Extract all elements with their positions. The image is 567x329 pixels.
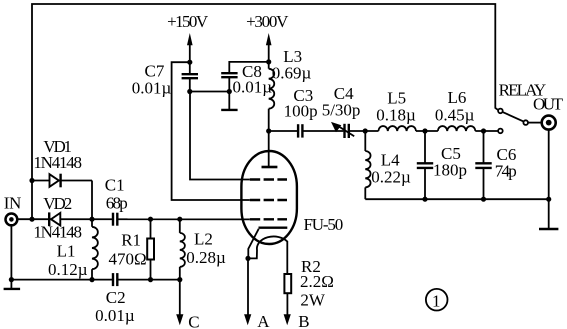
node: R1 top [148, 217, 153, 222]
node: lower rail at R1 [148, 277, 153, 282]
capacitor C5 [417, 131, 433, 199]
tube screen grid g2 (dashed) [250, 199, 287, 201]
relay common contact [523, 120, 528, 125]
arrow to C [176, 314, 183, 325]
diode VD1 [50, 174, 61, 188]
diode VD2 [49, 212, 60, 226]
connector IN [5, 214, 17, 226]
node: lower rail at L1 [89, 277, 94, 282]
svg-text:1N4148: 1N4148 [33, 223, 82, 242]
tube anode plate [262, 166, 278, 169]
inductor L3 [269, 62, 275, 131]
svg-text:C2: C2 [106, 288, 126, 307]
resistor R2 [284, 274, 291, 315]
svg-text:470Ω: 470Ω [109, 249, 147, 268]
wire: VD1 right vertical to main line [91, 181, 93, 220]
svg-text:1N4148: 1N4148 [33, 153, 82, 172]
power +150V arrow [187, 33, 193, 62]
svg-text:5/30p: 5/30p [322, 100, 361, 119]
ground (input) [4, 288, 21, 290]
tube control grid g1 (dashed) [250, 218, 287, 220]
svg-text:IN: IN [4, 193, 22, 212]
wire: common to OUT [528, 122, 541, 124]
node: output ground junction [546, 197, 551, 202]
wire: lower-left ground rail [11, 279, 179, 281]
wire: feedback vertical down to input node [31, 181, 33, 220]
node: L4 top [363, 128, 368, 133]
inductor L4 [365, 131, 370, 199]
svg-text:74p: 74p [495, 161, 517, 180]
svg-text:180p: 180p [433, 161, 467, 180]
relay switch blade [502, 112, 523, 122]
inductor L1 [92, 219, 98, 279]
capacitor C3 [297, 124, 304, 139]
node: C6 top [481, 128, 486, 133]
tube cathode [259, 226, 288, 228]
svg-text:2.2Ω: 2.2Ω [300, 272, 334, 291]
inductor L5 [378, 126, 416, 131]
svg-text:+150V: +150V [167, 12, 209, 31]
node: anode junction [266, 128, 271, 133]
node: input junction at x=32 [29, 217, 34, 222]
node: L2 top [177, 217, 182, 222]
wire: suppressor grid to C7/C8 node [190, 92, 250, 180]
svg-text:0.01µ: 0.01µ [95, 306, 135, 325]
wire: screen grid feed from +150V [172, 62, 250, 200]
wire: cathode line C arrow [179, 280, 181, 315]
svg-text:100p: 100p [284, 102, 318, 121]
svg-text:L2: L2 [194, 229, 213, 248]
svg-text:+300V: +300V [246, 12, 289, 31]
node: +300V / C8 branch [266, 59, 271, 64]
node: +150V / C7 top [187, 60, 192, 65]
inductor L2 [180, 219, 185, 279]
capacitor C2 [112, 272, 118, 287]
node: VD2 right junction / L1 top [89, 217, 94, 222]
svg-text:C7: C7 [145, 61, 165, 80]
capacitor C4 (variable) [331, 122, 354, 139]
svg-text:L6: L6 [448, 88, 467, 107]
wire: C7 bottom to C8 bottom [190, 91, 230, 93]
svg-text:0.45µ: 0.45µ [435, 105, 475, 124]
capacitor C6 [475, 131, 491, 199]
wire: rail between L5 and L6 [416, 130, 438, 132]
svg-text:C: C [188, 312, 199, 329]
svg-text:R1: R1 [121, 231, 141, 250]
svg-text:1: 1 [432, 292, 441, 311]
tube suppressor grid g3 (dashed) [250, 178, 287, 180]
node: cathode/filament junction [245, 256, 250, 261]
wire: main input line [18, 218, 250, 220]
svg-text:0.12µ: 0.12µ [48, 260, 88, 279]
ground (C8) [221, 109, 237, 111]
wire: input ground stem [10, 226, 12, 289]
wire: anode lead [268, 131, 270, 167]
relay lower contact [498, 129, 503, 134]
capacitor C8 [221, 62, 269, 110]
tube filament [248, 236, 287, 274]
wire: feedback top rail from relay to input [32, 4, 495, 181]
capacitor C1 [112, 212, 118, 227]
wire: output bottom rail [365, 198, 548, 200]
figure number 1 [426, 289, 448, 311]
wire: feedback to upper contact [495, 108, 498, 110]
ground (output) [539, 228, 558, 230]
wire: filament A lead [247, 258, 249, 315]
svg-text:VD2: VD2 [43, 194, 72, 213]
connector OUT [542, 116, 556, 130]
arrow to A [244, 314, 251, 325]
node: lower rail at input ground [9, 277, 14, 282]
relay upper contact [498, 109, 503, 114]
resistor R1 [147, 219, 154, 279]
node: C5 bottom [422, 197, 427, 202]
svg-text:2W: 2W [300, 291, 326, 310]
arrow to B [284, 314, 291, 325]
wire: OUT to ground rail [548, 130, 550, 200]
svg-text:0.69µ: 0.69µ [272, 63, 312, 82]
svg-text:0.28µ: 0.28µ [186, 248, 226, 267]
svg-text:C1: C1 [105, 176, 125, 195]
power +300V arrow [266, 33, 272, 62]
node: C5 top [422, 128, 427, 133]
svg-text:0.01µ: 0.01µ [233, 78, 273, 97]
inductor L6 [438, 126, 476, 131]
node: C6 bottom [481, 197, 486, 202]
wire: output ground stem [548, 199, 550, 228]
svg-text:0.22µ: 0.22µ [371, 168, 411, 187]
svg-text:0.18µ: 0.18µ [376, 106, 416, 125]
svg-text:0.01µ: 0.01µ [132, 79, 172, 98]
node: lower rail at L2 [177, 277, 182, 282]
svg-text:L1: L1 [57, 241, 76, 260]
wire: rail from L6 to relay contact [475, 130, 498, 132]
wire: cathode lead [248, 229, 258, 259]
wire: plate tank line [269, 130, 379, 132]
tube FU-50 envelope [241, 151, 297, 244]
wire: VD1 branch horizontal [32, 180, 92, 182]
svg-text:OUT: OUT [533, 94, 564, 113]
node: VD1 left junction [29, 178, 34, 183]
node: C8 bottom [227, 89, 232, 94]
svg-text:68p: 68p [106, 194, 128, 213]
capacitor C7 [182, 62, 198, 91]
node: C7 bottom [187, 89, 192, 94]
svg-text:A: A [257, 312, 270, 329]
svg-text:FU-50: FU-50 [304, 215, 344, 234]
svg-text:B: B [298, 312, 309, 329]
